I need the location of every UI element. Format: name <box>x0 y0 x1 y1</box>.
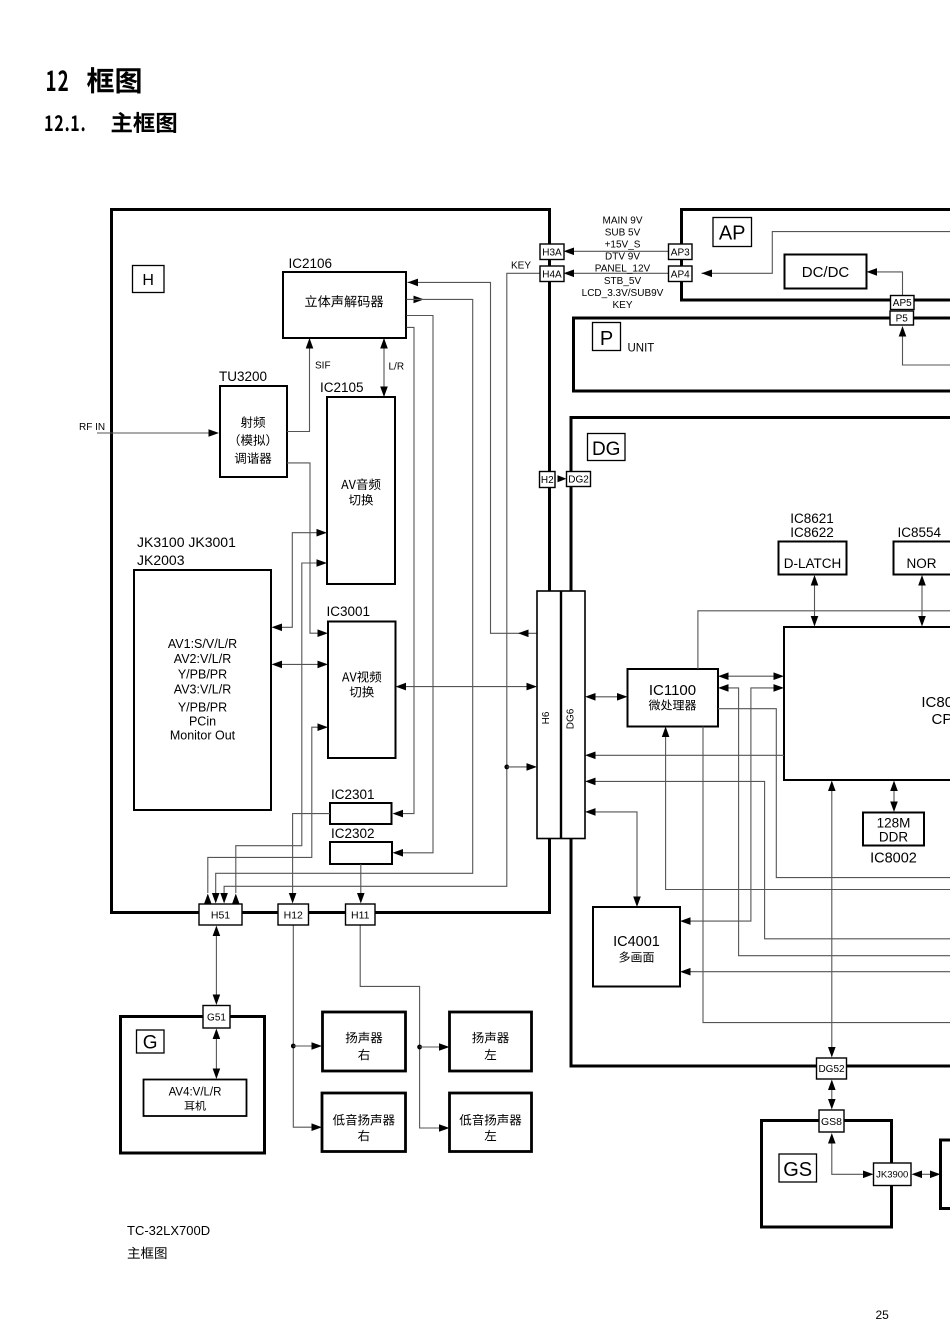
svg-text:DC/DC: DC/DC <box>802 264 850 281</box>
wire IC2301 to H12 <box>293 814 330 893</box>
connector H3A <box>540 244 564 260</box>
wire IC2106 to IC2301 <box>402 327 414 813</box>
connector G51 <box>203 1006 230 1029</box>
svg-text:H2: H2 <box>541 475 554 486</box>
svg-text:TC-32LX700D: TC-32LX700D <box>127 1223 210 1238</box>
wire IC3001 to H6 bidirectional <box>406 686 528 688</box>
svg-text:L/R: L/R <box>389 362 405 373</box>
svg-text:AV1:S/V/L/R: AV1:S/V/L/R <box>168 637 237 651</box>
connector AP3 <box>669 244 693 260</box>
svg-text:+15V_S: +15V_S <box>605 240 641 251</box>
svg-text:H: H <box>142 272 154 289</box>
connector JK3900 <box>874 1163 912 1186</box>
svg-text:UNIT: UNIT <box>628 343 655 355</box>
svg-text:IC1100: IC1100 <box>649 682 696 699</box>
wire H6 to IC2106 audio <box>408 282 538 633</box>
wire IC2106 to IC2302 <box>402 316 433 853</box>
wire JK jacks to IC3001 bidirectional <box>281 663 318 665</box>
svg-text:IC8622: IC8622 <box>790 525 834 540</box>
wire IC1100 bottom to right edge <box>703 727 950 1023</box>
IC2105 AV audio switch box <box>327 397 395 584</box>
svg-text:GS: GS <box>783 1159 812 1181</box>
connector P5 <box>890 311 914 325</box>
svg-text:AP3: AP3 <box>671 247 690 258</box>
svg-text:AP: AP <box>719 223 746 245</box>
subwoofer right box <box>322 1093 406 1152</box>
section heading 12.1 main block-diagram <box>45 115 84 131</box>
block DG label box <box>588 434 626 461</box>
connector AP5 <box>891 296 915 310</box>
block DG (digital board outline) <box>571 418 950 1067</box>
connector H12 <box>278 904 309 925</box>
wire IC1100 top to right edge <box>698 611 950 669</box>
block H label box <box>133 266 165 293</box>
IC3001 AV video switch box <box>328 622 396 759</box>
svg-text:AP4: AP4 <box>671 269 690 280</box>
IC8001 CPU box (cut at right edge) <box>784 627 950 780</box>
wire into P5 from below <box>903 335 950 365</box>
svg-text:JK3900: JK3900 <box>876 1170 908 1181</box>
wire DG52 to GS8 bidirectional <box>831 1088 833 1101</box>
svg-text:NOR: NOR <box>907 556 937 571</box>
wire IC2106 out to H51 <box>414 296 425 304</box>
wire G51 to AV4 bidirectional <box>215 1037 217 1070</box>
svg-text:IC2302: IC2302 <box>331 826 375 841</box>
svg-text:AV4:V/L/R: AV4:V/L/R <box>169 1087 222 1099</box>
svg-text:DG52: DG52 <box>818 1064 845 1075</box>
svg-text:MAIN 9V: MAIN 9V <box>602 215 642 226</box>
block AP (power board outline) <box>682 210 950 301</box>
svg-text:H11: H11 <box>351 909 370 921</box>
wire CPU to DG6 <box>594 754 784 756</box>
wire H51 to G51 bidirectional <box>215 934 217 996</box>
svg-text:PCin: PCin <box>189 715 216 729</box>
wire TU3200 SIF to IC2106 <box>287 339 310 432</box>
speaker left box <box>450 1012 532 1071</box>
wire JK3900 to right block bidirectional <box>920 1173 931 1175</box>
block AP label box <box>713 218 752 247</box>
block G outline <box>121 1017 265 1154</box>
svg-text:SUB 5V: SUB 5V <box>605 227 641 238</box>
speaker right box <box>323 1012 406 1071</box>
svg-text:TU3200: TU3200 <box>219 369 267 384</box>
svg-text:G51: G51 <box>207 1012 226 1023</box>
AV4 headphone jack box <box>144 1080 247 1117</box>
svg-text:25: 25 <box>876 1308 890 1322</box>
subwoofer left box <box>450 1093 532 1152</box>
svg-text:IC3001: IC3001 <box>327 604 371 619</box>
svg-text:G: G <box>143 1033 158 1054</box>
connector H2 <box>540 472 556 488</box>
block P unit outline <box>574 318 950 391</box>
svg-text:IC4001: IC4001 <box>613 934 660 950</box>
wire IC1100 right lower to right edge <box>718 709 950 878</box>
wire H4A from AP4 <box>573 272 669 274</box>
svg-text:IC2105: IC2105 <box>320 380 364 395</box>
connector H51 <box>199 904 242 925</box>
svg-text:128M: 128M <box>877 816 911 831</box>
svg-text:H12: H12 <box>284 909 303 921</box>
connector H4A <box>540 266 564 282</box>
block at right edge (cut off) <box>941 1140 950 1209</box>
connector DG2 <box>567 472 591 487</box>
wire L/R IC2106 to IC2105 <box>383 339 385 396</box>
wire D-LATCH to CPU bidirectional <box>814 584 816 617</box>
svg-text:AV3:V/L/R: AV3:V/L/R <box>174 683 231 697</box>
svg-text:DG6: DG6 <box>566 708 577 729</box>
svg-text:DG: DG <box>592 439 621 460</box>
svg-text:Y/PB/PR: Y/PB/PR <box>178 667 227 681</box>
svg-text:Y/PB/PR: Y/PB/PR <box>178 701 227 715</box>
svg-text:RF IN: RF IN <box>79 422 105 433</box>
wire DDR to CPU bidirectional <box>893 789 895 803</box>
IC2106 stereo decoder box <box>283 272 406 338</box>
svg-text:IC8621: IC8621 <box>790 511 834 526</box>
connector DG52 <box>817 1058 847 1079</box>
svg-text:CPU: CPU <box>932 711 950 728</box>
svg-text:JK3100 JK3001: JK3100 JK3001 <box>137 534 236 550</box>
wire TU3200 video to IC3001 <box>287 463 318 633</box>
wire GS8 to JK3900 <box>832 1142 864 1174</box>
wire H12 to right speakers <box>293 925 312 1127</box>
svg-text:LCD_3.3V/SUB9V: LCD_3.3V/SUB9V <box>582 288 664 299</box>
DC/DC converter box <box>785 255 867 289</box>
svg-text:H51: H51 <box>211 909 230 921</box>
svg-text:DTV 9V: DTV 9V <box>605 252 640 263</box>
svg-text:PANEL_12V: PANEL_12V <box>595 264 651 275</box>
svg-text:H3A: H3A <box>542 247 562 258</box>
svg-text:STB_5V: STB_5V <box>604 276 642 287</box>
svg-text:KEY: KEY <box>511 261 531 272</box>
connector GS8 <box>819 1110 844 1132</box>
block P label box <box>593 323 621 351</box>
wire NOR to CPU bidirectional <box>921 584 923 617</box>
wire into IC1100 right from below <box>727 688 950 956</box>
block GS outline <box>762 1121 892 1228</box>
block G label box <box>137 1030 165 1053</box>
svg-text:H4A: H4A <box>542 269 562 280</box>
svg-text:IC2301: IC2301 <box>331 787 375 802</box>
block H (main board outline) <box>112 210 550 913</box>
wire into IC1100 bottom from right edge <box>666 737 950 890</box>
IC1100 microprocessor box <box>628 669 719 727</box>
svg-text:AP5: AP5 <box>893 298 912 309</box>
wire into IC4001 from right edge <box>690 971 950 973</box>
svg-text:D-LATCH: D-LATCH <box>784 556 842 571</box>
IC4001 multi-picture box <box>593 907 680 987</box>
wire IC2105 to JK jacks loop <box>281 533 317 628</box>
wire DG6 to IC4001 <box>594 812 637 897</box>
svg-text:IC8002: IC8002 <box>870 851 917 867</box>
wire CPU to IC4001 <box>690 688 776 921</box>
wire H3A from AP3 <box>573 250 669 252</box>
wire DG6 from right lower <box>594 781 950 938</box>
wire IC1100 to DG6 bidirectional <box>594 696 618 698</box>
connector H11 <box>346 904 376 925</box>
wire H2 to DG2 <box>558 475 567 482</box>
svg-text:P: P <box>600 328 613 350</box>
wire H11 to left speakers <box>360 925 439 1128</box>
block GS label box <box>779 1154 817 1182</box>
page title 12 block-diagram <box>47 70 68 91</box>
wire IC2302 to H11 <box>360 864 362 893</box>
svg-text:IC2106: IC2106 <box>289 256 333 271</box>
wire IC1100 to CPU bidirectional <box>727 675 775 677</box>
wire CPU to DG52 <box>831 790 833 1048</box>
wire H51 to IC3001 <box>208 727 318 893</box>
wire into AP4 from right <box>702 232 950 274</box>
svg-text:H6: H6 <box>541 711 552 724</box>
svg-text:JK2003: JK2003 <box>137 552 185 568</box>
svg-text:AV2:V/L/R: AV2:V/L/R <box>174 652 231 666</box>
caption main block diagram <box>128 1247 167 1259</box>
TU3200 RF analog tuner box <box>220 386 287 477</box>
svg-text:IC8554: IC8554 <box>898 525 942 540</box>
svg-text:IC8001: IC8001 <box>921 694 950 711</box>
IC8002 128M DDR box <box>863 813 924 846</box>
wire H51 to IC2105 <box>236 563 317 893</box>
connector H6 DG6 <box>537 591 585 839</box>
svg-text:P5: P5 <box>896 314 909 325</box>
svg-text:KEY: KEY <box>612 300 632 311</box>
connector AP4 <box>669 266 693 282</box>
svg-text:SIF: SIF <box>315 361 331 372</box>
svg-text:DG2: DG2 <box>568 475 589 486</box>
svg-text:GS8: GS8 <box>821 1116 842 1128</box>
svg-text:DDR: DDR <box>879 830 908 845</box>
svg-text:Monitor Out: Monitor Out <box>170 729 236 743</box>
wire AP5 to DC/DC <box>876 272 903 296</box>
